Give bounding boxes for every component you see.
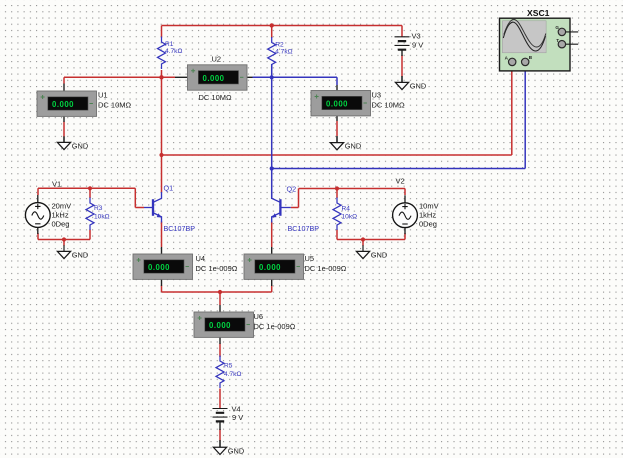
svg-text:R4: R4 (342, 205, 351, 212)
svg-text:0Deg: 0Deg (52, 219, 70, 228)
svg-text:V3: V3 (412, 32, 421, 41)
svg-text:10kΩ: 10kΩ (342, 214, 358, 221)
svg-text:DC 1e-009Ω: DC 1e-009Ω (305, 264, 347, 273)
svg-text:1kHz: 1kHz (419, 210, 436, 219)
svg-text:10mV: 10mV (419, 202, 439, 211)
svg-text:G: G (555, 25, 559, 30)
svg-text:R3: R3 (94, 205, 103, 212)
svg-text:U5: U5 (305, 254, 315, 263)
svg-text:10kΩ: 10kΩ (94, 213, 110, 220)
svg-text:V2: V2 (396, 177, 405, 186)
svg-text:U2: U2 (212, 55, 222, 64)
svg-text:U6: U6 (254, 312, 264, 321)
svg-text:4.7kΩ: 4.7kΩ (275, 48, 292, 55)
svg-text:9 V: 9 V (232, 413, 243, 422)
svg-text:0Deg: 0Deg (419, 219, 437, 228)
svg-text:XSC1: XSC1 (527, 8, 550, 18)
svg-text:T: T (556, 38, 559, 43)
svg-text:U3: U3 (372, 91, 382, 100)
svg-text:Q2: Q2 (287, 185, 297, 194)
svg-text:BC107BP: BC107BP (164, 224, 196, 233)
svg-text:DC 10MΩ: DC 10MΩ (372, 101, 406, 110)
svg-text:4.7kΩ: 4.7kΩ (224, 371, 241, 378)
svg-text:V1: V1 (52, 180, 61, 189)
svg-text:4.7kΩ: 4.7kΩ (165, 48, 182, 55)
svg-text:9 V: 9 V (412, 41, 423, 50)
svg-text:Q1: Q1 (164, 183, 174, 192)
svg-text:U1: U1 (98, 91, 108, 100)
svg-text:DC 1e-009Ω: DC 1e-009Ω (196, 264, 238, 273)
svg-text:U4: U4 (196, 254, 206, 263)
svg-text:DC 10MΩ: DC 10MΩ (98, 101, 132, 110)
svg-text:BC107BP: BC107BP (288, 224, 320, 233)
svg-text:20mV: 20mV (52, 202, 72, 211)
svg-text:DC 1e-009Ω: DC 1e-009Ω (254, 322, 296, 331)
svg-text:R5: R5 (224, 363, 233, 370)
svg-text:DC 10MΩ: DC 10MΩ (199, 93, 233, 102)
svg-text:1kHz: 1kHz (52, 210, 69, 219)
